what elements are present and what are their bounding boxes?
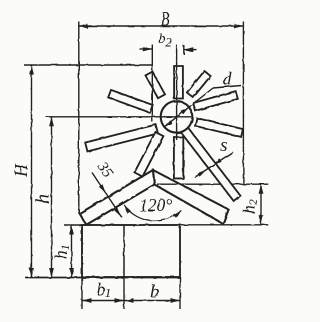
blade 7 o'clock [135, 132, 164, 177]
blade 6 o'clock [174, 137, 183, 178]
left V arm [80, 170, 155, 225]
right V arm [153, 170, 229, 224]
node apex vertical centerline [151, 45, 153, 123]
base block divider [123, 225, 125, 277]
extension line lower (h2) [180, 224, 268, 226]
svg-text:h: h [32, 194, 53, 204]
blade 11 o'clock [146, 72, 166, 99]
dimension s leader [195, 152, 234, 178]
dimension b1 line [82, 300, 124, 302]
svg-text:d: d [223, 69, 233, 89]
svg-text:35: 35 [93, 159, 116, 182]
blade 10 o'clock [108, 90, 153, 113]
blade 12 o'clock [174, 66, 183, 99]
blade 5 o'clock [181, 127, 240, 200]
dimension h line [51, 117, 53, 278]
extension tick (b2 right) [183, 45, 185, 55]
svg-text:H: H [11, 163, 31, 178]
node hub vertical centerline [176, 45, 178, 141]
dimension b2 line [140, 48, 153, 50]
hub circle [161, 101, 193, 133]
extension line left (B) [78, 22, 80, 214]
extension line left (h1) [64, 224, 82, 226]
angle arc 120deg [124, 205, 181, 221]
extension line upper (h2) [157, 183, 221, 185]
svg-text:h2: h2 [239, 199, 259, 214]
svg-text:120°: 120° [139, 195, 172, 215]
blade 2 o'clock [193, 91, 238, 111]
dimension h2 line [260, 184, 262, 225]
dimension b line [124, 300, 180, 302]
svg-text:s: s [220, 135, 227, 156]
blade 8 o'clock [85, 125, 158, 152]
dimension B line [78, 25, 243, 27]
svg-text:h1: h1 [51, 244, 72, 259]
svg-text:B: B [161, 7, 170, 30]
dimension d leader [213, 86, 241, 89]
svg-text:2: 2 [165, 34, 172, 49]
blade 4 o'clock [195, 118, 243, 137]
wire H top extension line [24, 64, 152, 66]
svg-text:b: b [150, 281, 160, 302]
dimension H line [31, 65, 33, 278]
blade 1 o'clock [187, 71, 211, 98]
node hub horizontal centerline [46, 116, 192, 118]
extension lines (b1,b) [81, 278, 83, 309]
dimension 35 leader [92, 173, 122, 218]
base block [82, 225, 180, 277]
extension line right (B) [242, 22, 244, 185]
svg-text:1: 1 [105, 285, 112, 300]
part baseline [25, 277, 181, 279]
dimension h1 line [71, 225, 73, 278]
